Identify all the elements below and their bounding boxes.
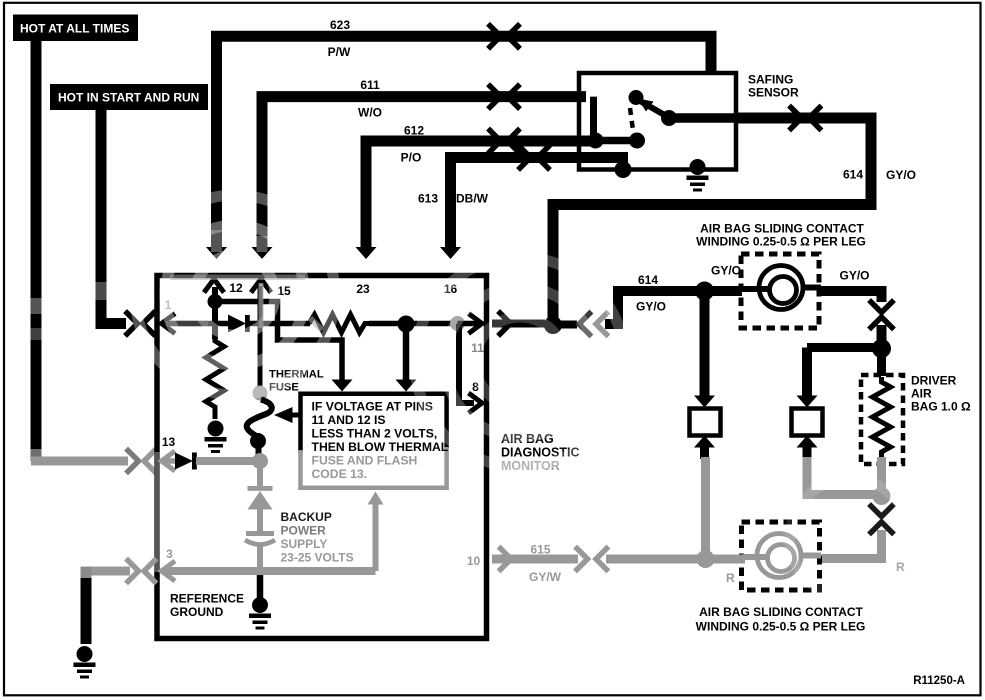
driver air bag dashed case (861, 375, 903, 464)
node: gray junction on 615 run (697, 550, 715, 568)
air bag sliding contact (bottom) dashed case (742, 522, 820, 590)
wire: black drop to reference ground (257, 574, 264, 598)
svg-text:WINDING 0.25-0.5 Ω PER LEG: WINDING 0.25-0.5 Ω PER LEG (696, 620, 866, 634)
note box border (black upper part) (301, 394, 447, 452)
pin 12 stem (212, 287, 218, 297)
svg-text:AIR: AIR (911, 387, 932, 401)
squib 2 return stem (803, 448, 812, 460)
wire from sliding contact to driver air bag (819, 291, 887, 302)
wire: pin 1 row to diode (163, 321, 229, 327)
connector at monitor pin 10 (501, 549, 512, 570)
connector in wire 613 (520, 147, 531, 168)
wire into driver air bag (877, 352, 886, 376)
wire down to junction (877, 325, 887, 342)
svg-text:3: 3 (166, 547, 173, 561)
pin 12 entry chevron (206, 279, 223, 291)
node: row junction (black) (398, 316, 415, 333)
wire: pin 12 junction to thermal-fuse branch (215, 302, 342, 382)
squib 2 (connector block) (792, 409, 823, 436)
driver air bag resistor (vertical zigzag) (873, 377, 891, 457)
wire: gray junction down and right to pin 8 (459, 324, 474, 404)
safing sensor: 613 internal drop (620, 158, 627, 166)
wire down to squib 2 with arrowhead (802, 348, 812, 397)
svg-text:614: 614 (843, 168, 863, 182)
air bag sliding contact (top) dashed case (741, 254, 819, 328)
node: gray junction (fuse / pin 13 / backup supply) (252, 453, 268, 469)
svg-text:SAFING: SAFING (748, 73, 793, 87)
svg-text:10: 10 (467, 554, 481, 568)
reference ground symbol (249, 597, 271, 630)
safing sensor box (579, 73, 736, 170)
gray corner fading to black drop (81, 567, 92, 580)
svg-text:23-25 VOLTS: 23-25 VOLTS (281, 551, 354, 565)
diode on pin 1 row (228, 315, 246, 333)
svg-text:IF VOLTAGE AT PINS: IF VOLTAGE AT PINS (312, 400, 433, 414)
arrowhead of wire 613 at monitor pin 16 (440, 247, 461, 259)
svg-text:GY/W: GY/W (529, 570, 562, 584)
safing sensor: arm arrowhead near pivot (638, 99, 654, 112)
in-line connector pair on 615 (577, 549, 588, 570)
wire from driver squib junction down to squib 1 (700, 291, 710, 396)
backup supply zener diode (gray) (248, 486, 273, 491)
wire: pin 3 row across to riser (163, 567, 376, 575)
sliding contact winding (top spiral) (742, 286, 770, 292)
connector in wire 623 (490, 26, 501, 47)
svg-text:GROUND: GROUND (170, 605, 224, 619)
safing sensor: dashed alternate-throw line (630, 108, 634, 134)
svg-text:613: 613 (418, 192, 438, 206)
svg-text:SENSOR: SENSOR (748, 86, 799, 100)
thermal fuse top terminal (gray bead) (253, 386, 268, 401)
stub from fuse to gray junction (256, 447, 262, 455)
note box pointer to thermal fuse (274, 407, 293, 423)
node: pin 12 junction (208, 294, 223, 309)
svg-text:POWER: POWER (281, 524, 327, 538)
svg-text:623: 623 (330, 18, 350, 32)
wire 623 P/W: from top corner to safing sensor (217, 36, 712, 248)
wire 611 W/O: from corner to safing sensor (262, 97, 586, 248)
svg-text:LESS THAN 2 VOLTS,: LESS THAN 2 VOLTS, (312, 427, 438, 441)
svg-text:AIR BAG SLIDING CONTACT: AIR BAG SLIDING CONTACT (700, 222, 864, 236)
backup supply: wire down from junction (257, 461, 263, 487)
arrowhead into note box (left) (332, 380, 353, 392)
wire: diode to capacitor (257, 509, 263, 532)
wire: gray feed into monitor pin 13 (31, 457, 128, 466)
safing sensor: contact node 611/612 (588, 133, 604, 149)
pin 11 exit chevron (471, 315, 483, 332)
wire: gray junction to pin 11 (458, 321, 479, 327)
thermal fuse squiggle (247, 400, 272, 438)
safing sensor: moving contact node (661, 110, 677, 126)
svg-text:R11250-A: R11250-A (913, 675, 965, 687)
svg-text:11 AND 12 IS: 11 AND 12 IS (312, 413, 386, 427)
safing sensor: 611 internal drop (590, 97, 597, 135)
wire 612 P/O: from corner to safing sensor (366, 141, 595, 248)
wire from junction to passenger-side squib column (807, 343, 882, 352)
node: gray junction below driver air bag (873, 487, 891, 505)
safing sensor: link wire between contacts (596, 137, 638, 145)
svg-text:GY/O: GY/O (839, 269, 869, 283)
connector at monitor pin 11 (500, 313, 511, 334)
svg-text:CODE 13.: CODE 13. (312, 467, 368, 481)
squib 2 return arrowhead (797, 436, 818, 448)
pin 3 entry chevron (gray) (162, 563, 174, 580)
svg-text:GY/O: GY/O (711, 264, 741, 278)
sliding contact winding (bottom spiral, gray) (743, 554, 768, 560)
wire from junction to in-line connector (553, 321, 577, 329)
wire: pin 13 stub (163, 458, 176, 464)
in-line connector pair (vertical, right side) (871, 302, 892, 313)
svg-text:W/O: W/O (358, 106, 382, 120)
pin 15 entry chevron (253, 279, 270, 291)
wire: black junction down to note box arrow (403, 324, 410, 381)
svg-text:614: 614 (638, 273, 658, 287)
svg-text:GY/O: GY/O (636, 300, 666, 314)
wire 614 GY/O: safing sensor output to right then down and left (553, 118, 871, 320)
svg-text:BACKUP: BACKUP (281, 510, 332, 524)
svg-text:12: 12 (229, 281, 243, 295)
wire: hot-in-start-and-run feed to monitor pin 1 (101, 109, 126, 324)
squib 1 (connector block) (690, 409, 721, 436)
wire: fade to gray at corner to pin 13 (31, 449, 42, 461)
gray wire from connector down and left into sliding contact (819, 530, 882, 559)
gray stub below junction (877, 496, 886, 504)
ground inside monitor below resistor (205, 421, 227, 454)
power source box: HOT AT ALL TIMES (13, 15, 138, 42)
power source box: HOT IN START AND RUN (50, 84, 208, 110)
safing sensor: case ground (687, 159, 709, 192)
arrowhead into note box (right) (396, 380, 417, 392)
svg-text:FUSE AND FLASH: FUSE AND FLASH (312, 454, 418, 468)
air bag diagnostic monitor box (157, 276, 487, 639)
svg-text:THEN BLOW THERMAL: THEN BLOW THERMAL (312, 440, 449, 454)
gray arrowhead into note box bottom (368, 492, 384, 505)
wire 614 to sliding contact: up and right (605, 291, 742, 329)
connector in pin-13 feed (128, 451, 139, 472)
svg-text:HOT IN START AND RUN: HOT IN START AND RUN (58, 91, 199, 105)
svg-text:P/O: P/O (401, 151, 422, 165)
svg-text:REFERENCE: REFERENCE (170, 592, 244, 606)
pin 8 exit chevron (471, 395, 483, 412)
arrowhead of wire 612 at monitor pin 23 (356, 247, 377, 259)
arrowhead of wire 611 at monitor pin 15 (252, 247, 273, 259)
wire 613 DB/W: from safing sensor down to monitor pin 16 (451, 158, 629, 249)
wire 615 GY/W: gray run from monitor pin 10 (492, 555, 745, 564)
watermark streak overlays (36, 230, 322, 572)
svg-text:SUPPLY: SUPPLY (281, 537, 328, 551)
squib 1 return arrowhead (694, 436, 715, 448)
wire: diode to resistor (249, 321, 310, 327)
connector in wire 614 (791, 108, 802, 129)
wire: resistor to junction (369, 321, 400, 327)
connector in wire 612 (490, 131, 501, 152)
svg-text:612: 612 (404, 124, 424, 138)
pin 13 entry chevron (gray) (162, 453, 174, 470)
connector in wire 611 (490, 86, 501, 107)
wire: capacitor to pin 3 row (257, 546, 263, 569)
safing sensor: lower fixed contact (629, 133, 645, 149)
safing sensor: 613 node on bottom wall (615, 161, 632, 178)
wire: gray riser up to note box (373, 503, 379, 571)
svg-text:GY/O: GY/O (886, 168, 916, 182)
svg-text:23: 23 (356, 282, 370, 296)
wire: junction to gray junction (406, 321, 452, 327)
series resistor on row (horizontal zigzag) (309, 315, 370, 333)
wire: diode to gray junction (196, 457, 254, 465)
external reference ground drop (bottom left) (81, 567, 131, 576)
diode on pin 13 row (black) (175, 453, 193, 470)
connector in pin-1 feed (127, 313, 138, 334)
watermark rings (photobucket-style lightening) (135, 195, 910, 598)
svg-text:DB/W: DB/W (456, 192, 489, 206)
safing sensor: output stub to right wall (669, 113, 740, 123)
pin 1 entry chevron (162, 315, 174, 332)
node: junction above driver air bag (872, 339, 891, 358)
svg-text:HOT AT ALL TIMES: HOT AT ALL TIMES (20, 22, 129, 36)
svg-text:WINDING 0.25-0.5 Ω PER LEG: WINDING 0.25-0.5 Ω PER LEG (696, 235, 866, 249)
wire: pin 12 junction down to resistor (212, 302, 218, 340)
svg-text:AIR BAG SLIDING CONTACT: AIR BAG SLIDING CONTACT (699, 605, 863, 619)
svg-text:13: 13 (162, 435, 176, 449)
svg-text:BAG 1.0 Ω: BAG 1.0 Ω (911, 400, 971, 414)
safing sensor: switch arm (641, 102, 668, 118)
note box border (gray lower part) (301, 447, 447, 488)
node: row junction (gray) (450, 316, 465, 331)
node: junction of 614 feed and pin 11 wire (544, 316, 562, 334)
svg-text:DRIVER: DRIVER (911, 374, 957, 388)
svg-text:615: 615 (530, 543, 550, 557)
svg-text:R: R (726, 571, 735, 585)
node: junction at driver squib column (695, 282, 714, 301)
wire: monitor pin 11 output (492, 320, 545, 328)
chassis ground symbol (bottom left) (74, 646, 96, 679)
arrowhead of wire 623 at monitor pin 12 (206, 247, 227, 259)
in-line connector pair (vertical, lower right) (871, 506, 892, 517)
gray return below driver air bag (877, 457, 886, 490)
svg-text:611: 611 (360, 78, 380, 92)
squib 1 return stem (700, 448, 709, 460)
backup supply capacitor (gray) (246, 531, 274, 536)
gray return wire from squib 2 to right column (807, 457, 875, 495)
gray return wire from squib 1 down to 615 run (701, 457, 710, 553)
in-line connector pair on 614 (579, 314, 590, 335)
monitor internal resistor (vertical zigzag) (206, 338, 224, 419)
wire: hot-at-all-times feed (black vertical, left) (31, 40, 42, 451)
safing sensor: switch pivot (629, 90, 644, 105)
svg-text:P/W: P/W (328, 45, 351, 59)
wire: pin 15 down to thermal fuse (258, 286, 263, 386)
connector in pin-3 feed (128, 561, 139, 582)
thermal fuse lower bead (250, 433, 266, 449)
